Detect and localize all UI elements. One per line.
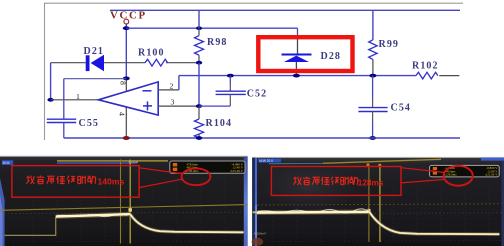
svg-text:D21: D21	[84, 46, 105, 57]
svg-text:128ms: 128ms	[358, 178, 384, 187]
resistor R98	[195, 36, 204, 56]
capacitor C54	[358, 108, 387, 112]
photo left: top-left blue menu label	[2, 160, 13, 165]
junction dot y28 at R98 column	[196, 26, 202, 30]
wire VCCP vertical lower (through op-amp, gray)	[125, 78, 127, 138]
photo right: readout box	[430, 165, 500, 177]
wire C55 column bottom	[63, 123, 65, 139]
wire pin3 to C52	[199, 105, 230, 107]
photo right: readout yellow text col1	[444, 166, 458, 176]
svg-text:2: 2	[170, 81, 174, 90]
svg-text:Δ25.48 V: Δ25.48 V	[230, 169, 243, 173]
svg-text:1: 1	[76, 92, 80, 101]
photo left: top bar yellow streak	[57, 160, 168, 162]
svg-text:140ms: 140ms	[98, 176, 125, 186]
svg-text:C55: C55	[79, 118, 100, 129]
photo left: vertical cursor a	[120, 160, 122, 244]
photo left: trace high segment	[56, 214, 131, 217]
svg-text:8: 8	[119, 81, 128, 85]
photo left: readout yellow text col1	[185, 162, 199, 172]
photo right: ground level marker	[253, 211, 259, 213]
wire R98 top	[198, 10, 200, 28]
diode D21	[86, 55, 104, 72]
wire pin1	[51, 99, 99, 101]
resistor R99	[369, 40, 377, 60]
photo left: readout yellow text col2	[230, 162, 243, 172]
photo right: red annotation rectangle	[271, 167, 401, 196]
photo left: cursor b marker	[129, 208, 132, 211]
wire R98 column middle	[198, 63, 200, 106]
frame border top	[44, 2, 463, 4]
wire R99 top	[372, 10, 374, 40]
photo left: trace low segment	[5, 217, 56, 235]
photo left: red annotation rectangle	[12, 166, 139, 198]
junction dot D28 bottom	[293, 74, 300, 78]
highlight red box around D28	[258, 37, 352, 71]
capacitor C52	[216, 91, 246, 94]
photo right: top bar blue segment	[481, 158, 504, 161]
wire C52 lead bottom	[229, 94, 231, 106]
photo right: trigger marker b	[378, 164, 381, 167]
svg-text:C54: C54	[391, 103, 412, 114]
junction dot bottom R104	[196, 136, 202, 140]
wire VCCP vertical	[125, 24, 127, 78]
photo left: body	[0, 156, 248, 246]
photo right: left bezel blue band	[252, 158, 255, 246]
photo left: readout box	[170, 161, 245, 173]
junction dot C54 bottom	[369, 136, 376, 140]
wire R104 bottom stub	[198, 134, 200, 138]
svg-text:3: 3	[171, 98, 175, 107]
frame border left	[44, 3, 46, 140]
photo left: readout channel glyphs	[173, 163, 177, 166]
wire R104 top stub	[198, 106, 200, 119]
svg-text:Δ128.0ms: Δ128.0ms	[444, 172, 458, 176]
junction dot bottom center (dark red)	[123, 136, 130, 140]
wire pin3 stub	[158, 105, 199, 107]
svg-text:D28: D28	[321, 51, 342, 62]
photo right: cursor a marker	[367, 209, 370, 212]
wire C54 lead top	[372, 76, 374, 99]
photo left: red ellipse	[182, 168, 211, 185]
capacitor C55	[47, 119, 76, 122]
photo right: trace high segment	[257, 211, 370, 214]
svg-text:4: 4	[117, 112, 126, 116]
wire pin2 stub	[158, 89, 179, 91]
photo right: top-left blue menu label	[259, 159, 282, 163]
photo right: red ellipse	[444, 166, 473, 186]
photo right: body	[252, 158, 504, 246]
photo left: top bar blue streak	[57, 162, 137, 164]
photo right: callout line lower	[401, 179, 444, 183]
photo right: vertical cursor a	[368, 167, 370, 243]
wire C52 lead top	[229, 76, 231, 84]
op-amp U1	[98, 82, 158, 115]
photo left: horizontal cursor line	[0, 205, 248, 211]
svg-text:R102: R102	[412, 61, 439, 72]
junction dot R99 bottom	[369, 74, 376, 78]
photo right: vertical cursor b	[379, 167, 381, 243]
photo right: readout channel glyphs	[433, 167, 437, 170]
photo right: annotation text 改善后缓冲时序	[293, 177, 358, 185]
photo left: left edge blue streak	[0, 178, 5, 246]
photo right: callout line upper	[401, 168, 444, 173]
photo left: grid dotted lines	[4, 166, 243, 243]
schematic background	[0, 0, 504, 156]
photo right: trace decay glow	[369, 212, 499, 234]
svg-text:Δ21.60 V: Δ21.60 V	[485, 172, 498, 176]
photo left: right bezel blue band	[244, 157, 248, 246]
svg-text:M:W: M:W	[3, 161, 11, 165]
wire left vertical	[50, 63, 52, 100]
power port circle	[124, 19, 129, 24]
junction dot pin3	[196, 104, 202, 108]
wire pin2 vertical	[178, 76, 180, 90]
resistor R102	[416, 72, 438, 79]
svg-text:R104: R104	[206, 118, 233, 129]
photo right: right bezel strip	[501, 158, 504, 246]
photo left: top edge light line	[0, 155, 248, 157]
wire C54 lead bottom	[372, 112, 374, 122]
photo left: callout line upper	[139, 168, 182, 174]
photo left: vertical cursor b	[129, 160, 131, 244]
svg-text:A:100mV: A:100mV	[254, 232, 266, 236]
photo right: trace high glow	[257, 209, 370, 215]
photo left: callout line lower	[139, 179, 182, 187]
wire C55 column top	[63, 79, 65, 119]
diode D28	[282, 54, 312, 63]
svg-text:R98: R98	[207, 37, 228, 48]
svg-text:R99: R99	[379, 39, 400, 50]
wire feedback loop horizontal	[64, 78, 127, 80]
wire R99 bottom	[372, 59, 374, 75]
junction dot at VCCP	[123, 26, 130, 30]
junction dot pin1	[47, 98, 53, 102]
svg-text:C52: C52	[247, 88, 268, 99]
op-amp plus input	[143, 101, 152, 110]
wire R98 bottom	[198, 55, 200, 63]
junction dot R100/R98	[196, 61, 202, 65]
wire mid rail	[179, 75, 416, 77]
photo right: bottom-left warm blob	[252, 238, 264, 246]
photo left: trace decay	[130, 214, 243, 232]
wire D28 lead top	[297, 28, 299, 36]
photo left: trace high segment glow	[56, 214, 131, 217]
svg-text:M:W 20.0: M:W 20.0	[259, 159, 273, 163]
photo right: trigger marker a	[367, 163, 370, 166]
wire D28 lead bottom	[295, 62, 297, 76]
resistor R100	[145, 59, 168, 66]
photo left: trace decay glow	[130, 214, 243, 232]
photo right: readout yellow text col2	[485, 166, 498, 176]
svg-text:R100: R100	[138, 48, 165, 59]
photo right: top bar olive streak	[269, 162, 323, 164]
wire horizontal y28 to D28	[126, 27, 297, 29]
photo right: grid dotted lines	[258, 182, 502, 243]
wire top rail	[110, 9, 460, 11]
op-amp minus input	[143, 90, 152, 92]
junction dot pin8	[123, 77, 130, 81]
wire D21 row	[51, 62, 86, 64]
wire bottom rail	[64, 137, 460, 139]
photo right: glare patch	[253, 161, 363, 213]
photo right: trace decay	[369, 212, 499, 234]
photo left: annotation text 改善前缓冲时序	[26, 176, 95, 184]
junction dot C52 top	[227, 74, 234, 78]
photo right: top edge light line	[252, 156, 504, 158]
resistor R104	[194, 119, 203, 138]
